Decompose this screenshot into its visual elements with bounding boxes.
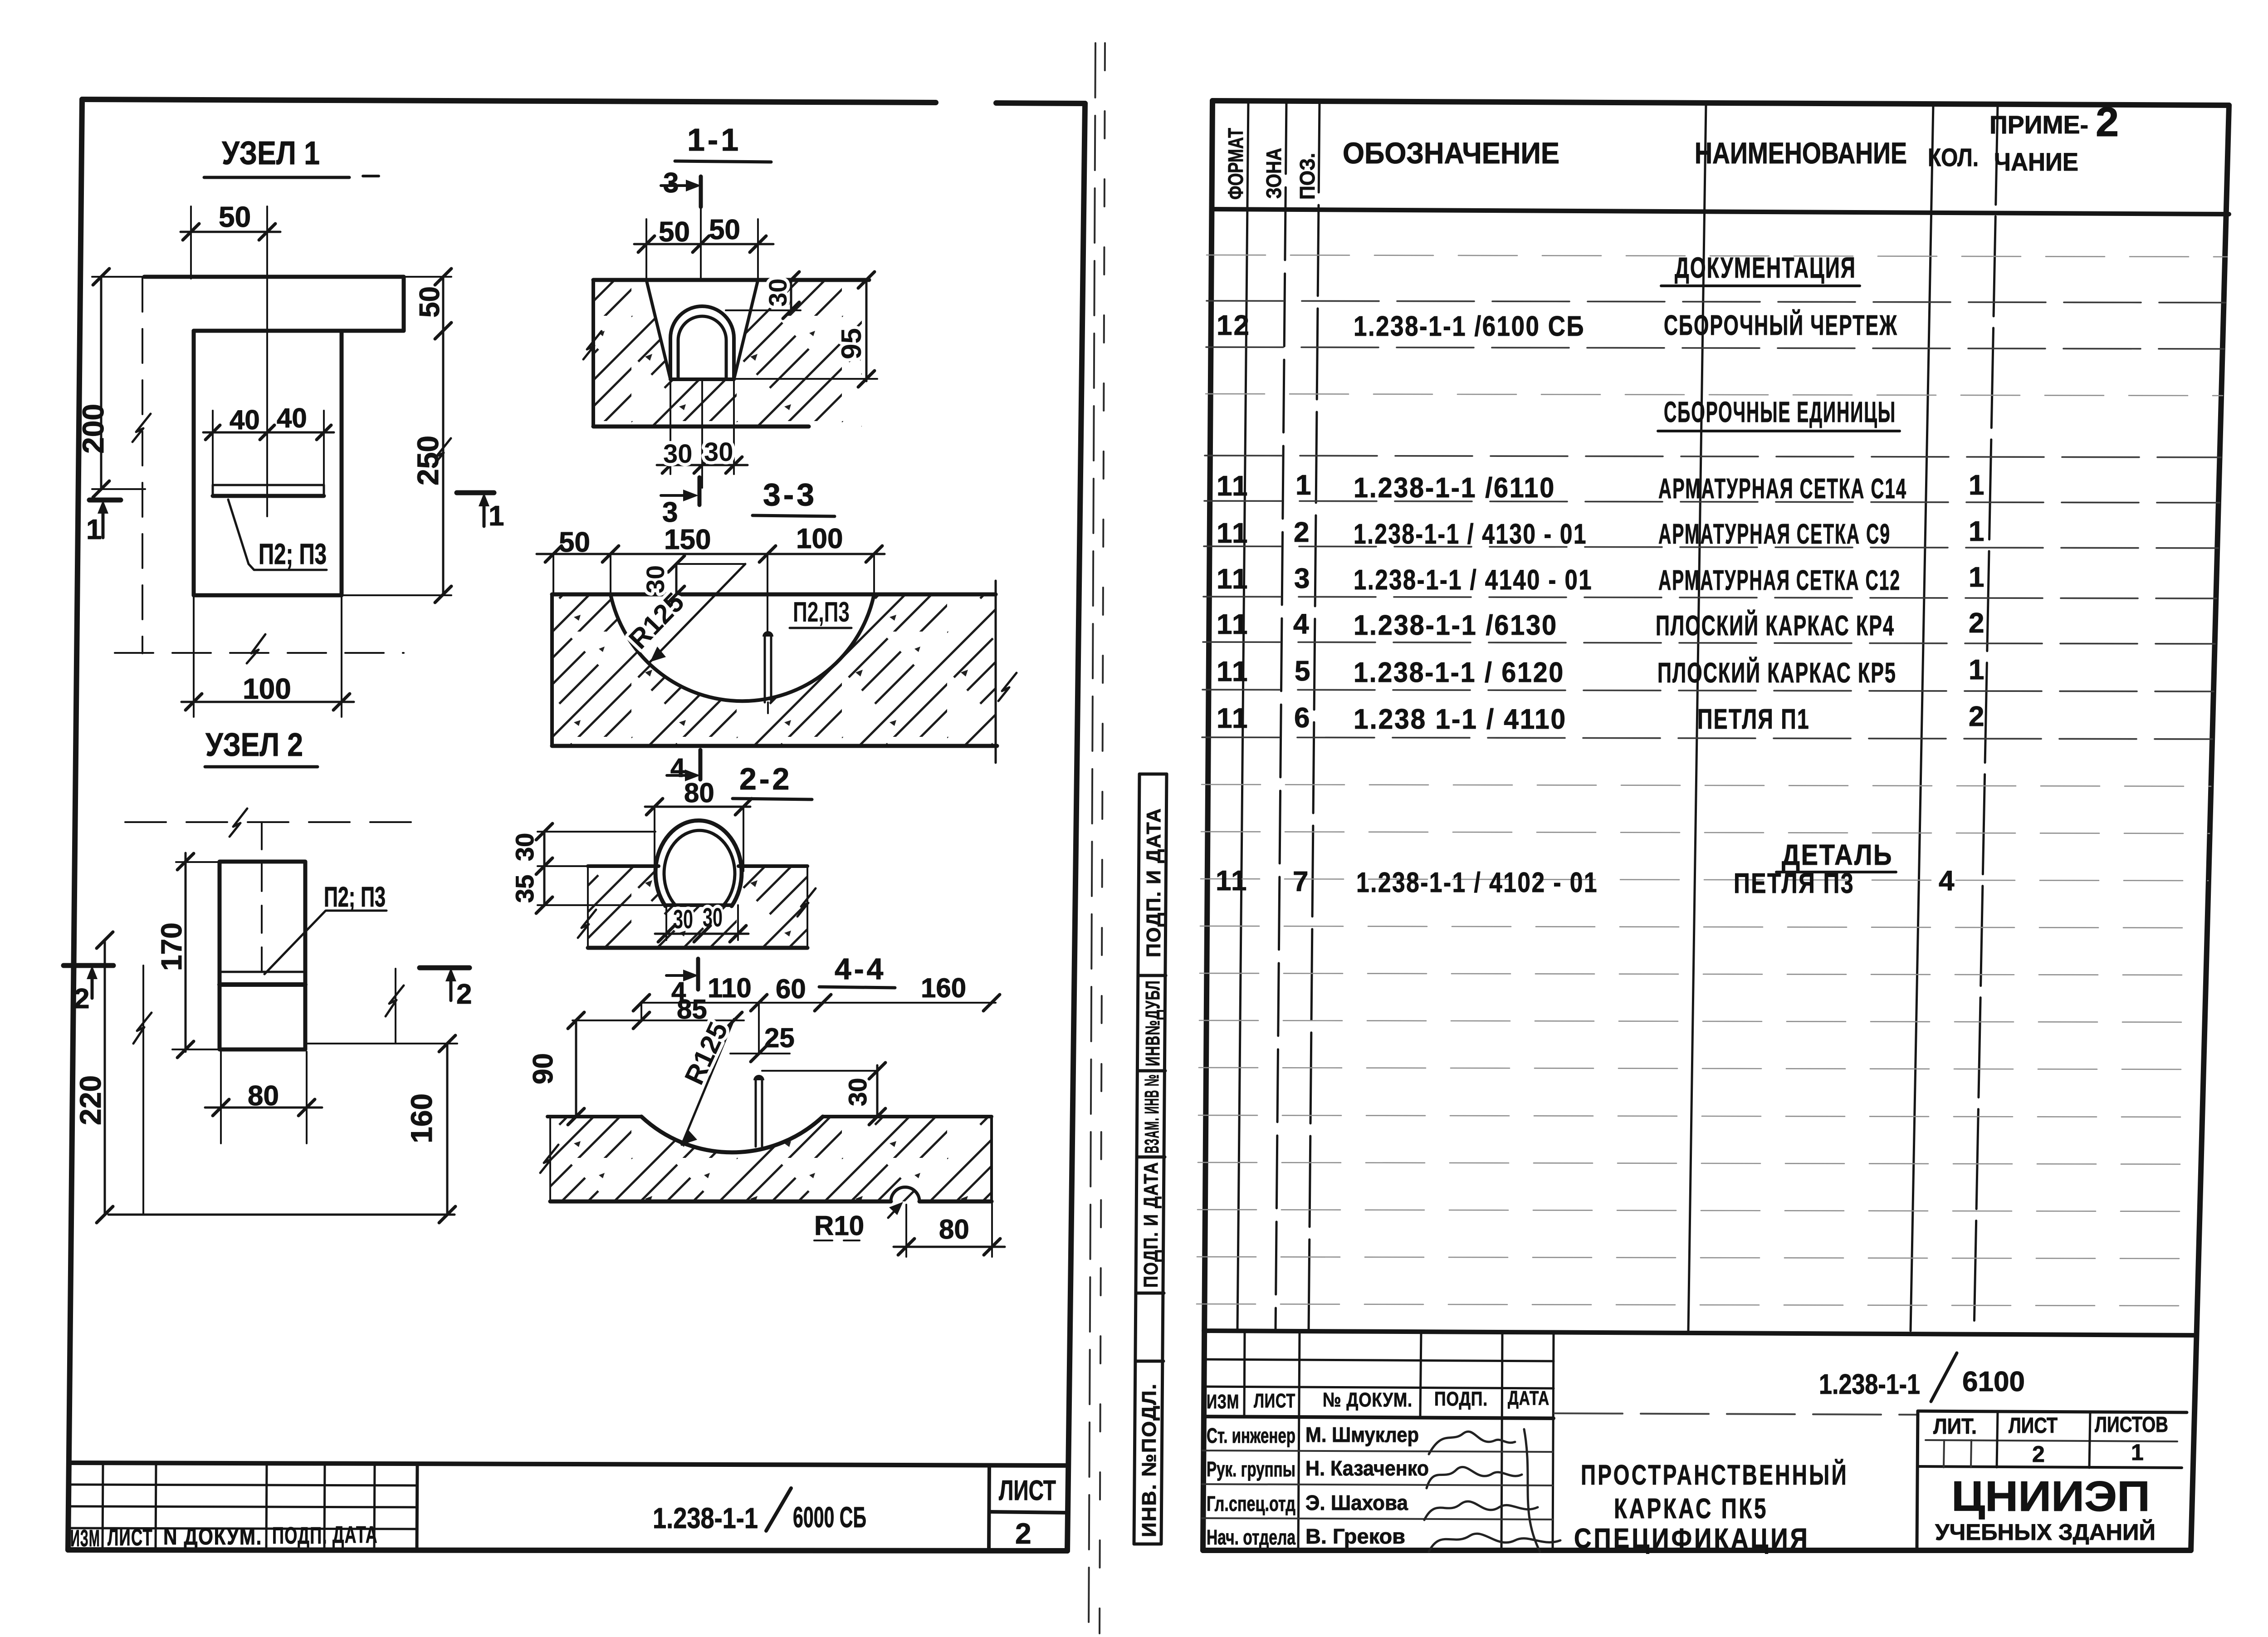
break mark on axis [132, 414, 151, 442]
dashed top line with break [125, 821, 427, 823]
svg-text:160: 160 [405, 1093, 438, 1143]
svg-text:ПЕТЛЯ П3: ПЕТЛЯ П3 [1734, 868, 1854, 899]
hatched block [593, 280, 862, 426]
svg-text:1-1: 1-1 [687, 122, 741, 157]
svg-text:1: 1 [1295, 470, 1312, 501]
svg-text:1.238-1-1 / 4140 - 01: 1.238-1-1 / 4140 - 01 [1354, 564, 1593, 596]
svg-text:60: 60 [776, 974, 806, 1004]
svg-text:R10: R10 [814, 1211, 864, 1241]
svg-text:Гл.спец.отд: Гл.спец.отд [1207, 1492, 1295, 1515]
svg-text:ПОДП. И ДАТА: ПОДП. И ДАТА [1140, 1162, 1162, 1288]
svg-text:УЗЕЛ 1: УЗЕЛ 1 [222, 135, 320, 172]
R125 radius [682, 1019, 734, 1145]
svg-text:ЛИСТ: ЛИСТ [2009, 1414, 2058, 1438]
table outer frame [1203, 101, 2229, 1550]
dim 30 upper right [726, 309, 801, 311]
svg-text:В. Греков: В. Греков [1305, 1524, 1405, 1548]
loop pin [755, 1079, 757, 1147]
svg-text:200: 200 [76, 404, 110, 454]
svg-text:ПОЗ.: ПОЗ. [1295, 153, 1319, 200]
dim 250 right [442, 331, 445, 594]
svg-text:2: 2 [1969, 701, 1985, 732]
svg-text:КАРКАС ПК5: КАРКАС ПК5 [1614, 1493, 1768, 1524]
svg-text:ИНВ№ДУБЛ: ИНВ№ДУБЛ [1142, 980, 1164, 1066]
svg-text:1.238-1-1 /6100 СБ: 1.238-1-1 /6100 СБ [1354, 311, 1585, 342]
extension with break left [142, 966, 144, 1215]
doc number 1.238-1-1/6000СБ [653, 1501, 866, 1534]
svg-text:40: 40 [230, 405, 260, 435]
lit list listov box [1918, 1411, 2187, 1412]
svg-text:3: 3 [1294, 563, 1311, 594]
svg-text:6: 6 [1294, 702, 1311, 734]
svg-text:1.238-1-1 /6110: 1.238-1-1 /6110 [1354, 472, 1555, 504]
svg-text:11: 11 [1217, 656, 1249, 687]
izm mini table [1203, 1331, 1554, 1552]
section mark 1 left [89, 498, 121, 503]
svg-text:250: 250 [411, 436, 445, 485]
svg-text:50: 50 [709, 214, 740, 245]
svg-text:Ст. инженер: Ст. инженер [1207, 1424, 1295, 1447]
svg-text:ИЗМ: ИЗМ [70, 1525, 100, 1552]
svg-text:КОЛ.: КОЛ. [1928, 143, 1979, 172]
dim 160 [307, 1043, 457, 1044]
left dims 30 35 [543, 832, 546, 905]
svg-text:Нач. отдела: Нач. отдела [1207, 1525, 1295, 1549]
title block top line [69, 1463, 1068, 1465]
svg-text:ЛИСТ: ЛИСТ [108, 1524, 153, 1551]
svg-text:6000 СБ: 6000 СБ [793, 1501, 866, 1534]
section mark 2 right [420, 966, 469, 970]
svg-text:ДЕТАЛЬ: ДЕТАЛЬ [1782, 838, 1893, 871]
title block labels [70, 1522, 378, 1552]
svg-text:35: 35 [510, 875, 539, 903]
block outline [552, 593, 996, 597]
svg-text:4: 4 [1293, 608, 1310, 640]
svg-text:2: 2 [456, 979, 472, 1010]
dim 30 [675, 564, 678, 594]
notch floor [670, 377, 734, 381]
dashed axis [261, 822, 263, 972]
block bottom with R10 notch [550, 1200, 891, 1204]
dome loop [655, 820, 742, 906]
svg-text:ПОДП.: ПОДП. [272, 1523, 327, 1549]
svg-text:ДОКУМЕНТАЦИЯ: ДОКУМЕНТАЦИЯ [1675, 251, 1856, 284]
svg-text:ПРОСТРАНСТВЕННЫЙ: ПРОСТРАНСТВЕННЫЙ [1581, 1459, 1848, 1491]
svg-text:ДАТА: ДАТА [332, 1522, 378, 1548]
svg-text:1: 1 [86, 514, 102, 545]
trough arc [611, 594, 874, 701]
dim 30 right of pin [762, 1070, 877, 1072]
dim 200 left [100, 277, 103, 489]
svg-text:40: 40 [277, 403, 307, 433]
svg-text:ФОРМАТ: ФОРМАТ [1224, 128, 1247, 200]
svg-text:30: 30 [704, 437, 733, 467]
svg-text:7: 7 [1293, 866, 1310, 897]
svg-text:1.238-1-1: 1.238-1-1 [1819, 1369, 1920, 1400]
svg-text:11: 11 [1217, 518, 1249, 549]
svg-text:ПРИМЕ-: ПРИМЕ- [1989, 110, 2088, 139]
svg-text:11: 11 [1217, 471, 1249, 502]
svg-text:30: 30 [673, 905, 693, 934]
svg-text:110: 110 [708, 973, 752, 1003]
LEFT_PAGE [68, 43, 1105, 1633]
svg-text:30: 30 [763, 279, 792, 307]
block outline [593, 278, 869, 282]
notch slants [646, 280, 670, 379]
R125 radius [678, 563, 745, 565]
svg-text:ПОДП.: ПОДП. [1434, 1388, 1488, 1410]
svg-text:НАИМЕНОВАНИЕ: НАИМЕНОВАНИЕ [1695, 136, 1907, 170]
svg-text:СБОРОЧНЫЙ ЧЕРТЕЖ: СБОРОЧНЫЙ ЧЕРТЕЖ [1664, 309, 1898, 341]
svg-text:95: 95 [836, 328, 867, 359]
svg-text:1.238-1-1: 1.238-1-1 [653, 1502, 758, 1534]
left sheet paper edge (double dashed vertical at right of sheet) [1089, 43, 1105, 1633]
LEFT_DRAWINGS [76, 135, 504, 717]
svg-text:11: 11 [1217, 703, 1249, 734]
RIGHT_PAGE [1134, 99, 2229, 1554]
extension with break right [395, 969, 396, 1044]
svg-text:АРМАТУРНАЯ СЕТКА С14: АРМАТУРНАЯ СЕТКА С14 [1658, 473, 1907, 505]
svg-text:1: 1 [2131, 1440, 2144, 1465]
svg-text:50: 50 [219, 201, 251, 233]
panel outline [144, 277, 404, 595]
svg-text:80: 80 [684, 778, 714, 808]
svg-text:12: 12 [1217, 310, 1251, 341]
loop pin (section) [764, 635, 766, 702]
dim 170 [185, 853, 187, 1052]
hatched strip [588, 866, 807, 948]
svg-text:1.238-1-1 / 4102 - 01: 1.238-1-1 / 4102 - 01 [1356, 867, 1598, 898]
dim 220 [104, 940, 106, 1215]
svg-text:ДАТА: ДАТА [1508, 1387, 1549, 1409]
panel rect (elevation) [220, 862, 305, 1049]
svg-text:СБОРОЧНЫЕ ЕДИНИЦЫ: СБОРОЧНЫЕ ЕДИНИЦЫ [1664, 396, 1896, 428]
svg-text:11: 11 [1217, 564, 1249, 595]
svg-text:1: 1 [1969, 470, 1985, 501]
loop plate edge [220, 971, 305, 973]
header underline [1212, 209, 2229, 214]
svg-text:80: 80 [939, 1214, 969, 1245]
dashed axis horizontal [115, 652, 404, 654]
spec entries [1216, 251, 1985, 899]
dim 95 [865, 280, 868, 381]
svg-text:2: 2 [74, 983, 89, 1015]
dim 100 bottom [193, 597, 195, 717]
section mark 1 right [457, 490, 494, 495]
svg-text:ЦНИИЭП: ЦНИИЭП [1951, 1472, 2150, 1520]
section 3 mark bottom [698, 477, 702, 505]
svg-text:ИЗМ: ИЗМ [1207, 1391, 1239, 1413]
svg-text:№ ДОКУМ.: № ДОКУМ. [1323, 1389, 1413, 1411]
svg-text:АРМАТУРНАЯ СЕТКА С9: АРМАТУРНАЯ СЕТКА С9 [1658, 519, 1891, 550]
section 4 mark [666, 974, 686, 977]
loop П1 arch [670, 306, 734, 379]
staff rows [1202, 1451, 1553, 1519]
svg-text:11: 11 [1217, 609, 1249, 640]
svg-text:220: 220 [73, 1075, 107, 1125]
svg-text:4-4: 4-4 [835, 952, 886, 985]
svg-text:11: 11 [1216, 865, 1248, 897]
drawing frame border [68, 99, 1085, 1551]
svg-text:30: 30 [510, 833, 539, 861]
R10 label [888, 1205, 900, 1218]
signatures squiggles [1424, 1429, 1560, 1552]
svg-text:6100: 6100 [1962, 1366, 2025, 1397]
svg-text:ЛИСТОВ: ЛИСТОВ [2095, 1413, 2168, 1437]
section mark 2 left [64, 963, 113, 968]
svg-text:ЛИСТ: ЛИСТ [999, 1475, 1056, 1506]
svg-text:100: 100 [796, 523, 843, 554]
svg-text:150: 150 [664, 524, 711, 555]
title block top line [1204, 1331, 2197, 1335]
surface lines [547, 1115, 641, 1118]
svg-text:4: 4 [1939, 865, 1955, 897]
svg-text:ПЛОСКИЙ КАРКАС КР4: ПЛОСКИЙ КАРКАС КР4 [1656, 610, 1895, 642]
svg-text:Э. Шахова: Э. Шахова [1305, 1491, 1408, 1514]
title block izm/list table [70, 1463, 417, 1550]
side stamp column [1134, 774, 1167, 1544]
svg-text:2: 2 [1294, 517, 1310, 548]
svg-text:ПЕТЛЯ П1: ПЕТЛЯ П1 [1697, 704, 1810, 735]
svg-text:2-2: 2-2 [739, 762, 792, 796]
svg-text:1: 1 [1969, 516, 1985, 547]
svg-text:3: 3 [663, 167, 679, 199]
svg-text:5: 5 [1295, 656, 1311, 687]
svg-text:100: 100 [243, 672, 291, 705]
leader П2;П3 [264, 911, 386, 974]
dim 80 below [220, 1052, 222, 1143]
svg-text:1.238-1-1 / 6120: 1.238-1-1 / 6120 [1354, 657, 1564, 688]
svg-text:2: 2 [1015, 1517, 1031, 1550]
svg-text:4: 4 [670, 753, 685, 783]
svg-text:50: 50 [414, 286, 445, 318]
svg-text:1: 1 [489, 500, 504, 532]
svg-text:Н. Казаченко: Н. Казаченко [1305, 1456, 1429, 1480]
svg-text:П2; П3: П2; П3 [324, 882, 386, 913]
svg-text:80: 80 [248, 1080, 279, 1112]
svg-text:2: 2 [1969, 608, 1985, 639]
leader П2;П3 [228, 500, 327, 570]
svg-text:М. Шмуклер: М. Шмуклер [1305, 1423, 1419, 1446]
svg-text:1.238-1-1 / 4130 - 01: 1.238-1-1 / 4130 - 01 [1354, 519, 1587, 550]
column lines [1237, 101, 1998, 1331]
svg-text:30: 30 [843, 1078, 872, 1106]
dim 50 right [404, 276, 451, 278]
project name [1574, 1459, 1848, 1554]
svg-text:ВЗАМ. ИНВ №: ВЗАМ. ИНВ № [1141, 1074, 1163, 1153]
svg-text:1: 1 [1969, 654, 1985, 686]
svg-text:1: 1 [1969, 562, 1985, 593]
svg-text:90: 90 [528, 1053, 559, 1084]
svg-text:3: 3 [662, 497, 678, 528]
svg-text:П2,П3: П2,П3 [793, 597, 850, 628]
dim 30 30 bottom [670, 379, 671, 474]
svg-text:1.238 1-1 / 4110: 1.238 1-1 / 4110 [1354, 704, 1567, 735]
svg-text:АРМАТУРНАЯ СЕТКА С12: АРМАТУРНАЯ СЕТКА С12 [1658, 565, 1901, 596]
loop plate П2;П3 (plan) [213, 484, 324, 486]
svg-text:30: 30 [703, 903, 723, 932]
svg-text:ЧАНИЕ: ЧАНИЕ [1994, 147, 2078, 176]
faint row lines [1197, 255, 2227, 1306]
svg-text:СПЕЦИФИКАЦИЯ: СПЕЦИФИКАЦИЯ [1574, 1523, 1810, 1554]
svg-text:30: 30 [641, 565, 670, 593]
dim 90 [575, 1020, 577, 1117]
svg-text:ИНВ. №ПОДЛ.: ИНВ. №ПОДЛ. [1138, 1383, 1160, 1537]
sheet number box ЛИСТ 2 [989, 1466, 1067, 1551]
svg-text:2: 2 [2096, 99, 2119, 145]
svg-text:ЛИСТ: ЛИСТ [1254, 1390, 1295, 1412]
svg-text:П2; П3: П2; П3 [259, 538, 327, 570]
svg-text:1.238-1-1 /6130: 1.238-1-1 /6130 [1354, 610, 1558, 641]
svg-text:ПОДП. И ДАТА: ПОДП. И ДАТА [1143, 808, 1165, 957]
hatched strip with trough [550, 1117, 992, 1201]
block bottom [588, 946, 807, 950]
hatched block with trough [552, 594, 996, 746]
svg-text:Рук. группы: Рук. группы [1207, 1457, 1295, 1481]
svg-text:ПЛОСКИЙ КАРКАС КР5: ПЛОСКИЙ КАРКАС КР5 [1657, 657, 1897, 689]
svg-text:УЧЕБНЫХ ЗДАНИЙ: УЧЕБНЫХ ЗДАНИЙ [1935, 1519, 2156, 1545]
svg-text:2: 2 [2032, 1441, 2045, 1467]
svg-text:25: 25 [764, 1023, 795, 1053]
dashed axis vertical [142, 278, 143, 653]
svg-text:3-3: 3-3 [763, 477, 817, 512]
surface lines [588, 864, 659, 868]
svg-text:УЗЕЛ 2: УЗЕЛ 2 [205, 727, 303, 763]
svg-text:ЗОНА: ЗОНА [1262, 148, 1286, 199]
svg-text:ЛИТ.: ЛИТ. [1933, 1415, 1977, 1439]
svg-text:170: 170 [155, 922, 188, 971]
svg-text:N ДОКУМ.: N ДОКУМ. [163, 1524, 262, 1550]
svg-text:160: 160 [921, 973, 966, 1003]
svg-text:R125: R125 [679, 1017, 733, 1089]
bottom extension line [108, 1214, 455, 1216]
svg-text:30: 30 [663, 439, 693, 469]
svg-text:ОБОЗНАЧЕНИЕ: ОБОЗНАЧЕНИЕ [1343, 136, 1559, 170]
